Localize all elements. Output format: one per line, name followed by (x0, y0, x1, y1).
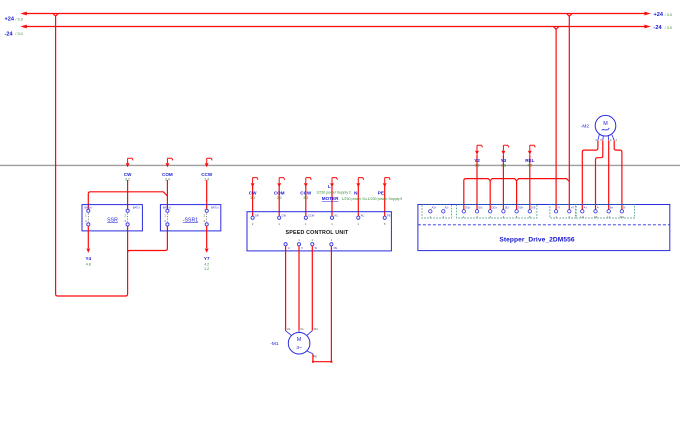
svg-text:AC: AC (334, 213, 338, 217)
speed unit motor terminal PE2 (330, 238, 338, 250)
svg-text:-24: -24 (5, 31, 14, 37)
svg-text:4.2: 4.2 (204, 262, 209, 266)
SSR1 contact dashes (167, 213, 206, 222)
off-page connector REL (525, 145, 535, 167)
relay SSR1 box (160, 205, 220, 231)
svg-text:W1: W1 (314, 327, 319, 331)
svg-text:CW: CW (124, 172, 132, 177)
off-page connector Y7 (204, 249, 210, 272)
svg-text:1/230 power Supply.2: 1/230 power Supply.2 (316, 190, 351, 194)
SSR pin numbers (85, 214, 126, 223)
svg-text:U: U (288, 246, 290, 250)
wire SSR1 pin4 to Y7 (206, 226, 208, 248)
svg-text:3.6: 3.6 (475, 163, 480, 167)
svg-text:A+: A+ (584, 206, 588, 210)
svg-text:1/230 power Su.1/230 power Sup: 1/230 power Su.1/230 power Supply.9 (342, 197, 403, 201)
speed unit terminal CW (278, 213, 287, 226)
speed unit terminal AC1 (330, 213, 338, 226)
M2 stub pin1 (612, 135, 617, 142)
svg-text:V1: V1 (300, 327, 304, 331)
svg-text:CCW: CCW (300, 190, 312, 195)
svg-text:Y3: Y3 (501, 158, 507, 163)
speed unit terminal SR (251, 213, 259, 226)
off-page connector CW (left) (124, 158, 133, 181)
terminal group box 2 (457, 204, 537, 218)
svg-text:BAT(+): BAT(+) (163, 205, 171, 209)
terminal DI3+ (515, 206, 524, 219)
speed unit motor terminal W (311, 238, 318, 250)
SSR pin 3 (right top) (126, 209, 129, 212)
svg-text:-V: -V (557, 206, 560, 210)
speed unit motor terminal V (297, 238, 303, 250)
wire +24 branch bus to DI+ terminals (464, 179, 570, 210)
svg-text:Y7: Y7 (204, 256, 210, 261)
svg-text:CW: CW (282, 213, 287, 217)
speed unit terminal PE (383, 213, 391, 226)
svg-text:COM: COM (274, 190, 285, 195)
svg-text:BAT(-): BAT(-) (211, 205, 219, 209)
svg-text:B+: B+ (610, 206, 614, 210)
svg-text:U1: U1 (287, 327, 291, 331)
svg-text:3.8: 3.8 (501, 163, 506, 167)
speed unit terminal CCW (304, 213, 315, 226)
off-page connector Y4 (85, 249, 91, 267)
arrow +24 left (20, 12, 26, 16)
off-page connector PE (middle) (378, 178, 390, 196)
svg-text:DI1+: DI1+ (465, 206, 471, 210)
terminal -V (554, 206, 560, 219)
terminal DI1+ (462, 206, 471, 219)
wire from -24 down to stepper drive -V terminal (553, 27, 559, 210)
wire V to motor M1 (298, 246, 300, 331)
SSR contact dashes (88, 213, 127, 222)
wire M2 pin4 to A+ (582, 141, 598, 210)
M1 stub W1 (307, 327, 319, 336)
svg-text:COM: COM (162, 172, 173, 177)
wire REL to DI3- (529, 155, 531, 210)
svg-text:DI3+: DI3+ (518, 206, 524, 210)
svg-text:W1: W1 (620, 215, 625, 219)
svg-text:AC: AC (361, 213, 365, 217)
wire link SSR pin4 to SSR1 pin3 (128, 226, 168, 253)
SSR1 pin 2 (left bottom) (166, 223, 169, 226)
arrow -24 right (644, 25, 650, 29)
wire drop to DI3+ (516, 181, 518, 210)
svg-text:+24: +24 (5, 17, 15, 23)
off-page connector COM (left) (162, 158, 173, 181)
off-page connector CW (middle) (249, 178, 258, 200)
wire CW to speed unit (252, 186, 254, 216)
off-page connector L (middle) (316, 178, 351, 195)
terminal DI2+ (489, 206, 498, 219)
terminal A2+ (429, 206, 437, 219)
arrow -24 left (20, 25, 26, 29)
M2 stub pin3 (600, 136, 603, 142)
svg-text:SSR: SSR (107, 217, 118, 223)
svg-text:PE: PE (313, 354, 317, 358)
wire PE to motor M1 (313, 246, 332, 362)
wire CCW to SSR1 pin2 (206, 180, 208, 209)
svg-text:/ 3.0: / 3.0 (15, 32, 22, 36)
svg-text:DI3-: DI3- (531, 206, 536, 210)
svg-text:3.3: 3.3 (303, 196, 308, 200)
terminal B+ (607, 206, 614, 219)
wire Y3 to DI2- (502, 155, 504, 210)
off-page connector N (middle) (354, 178, 364, 196)
off-page connector CCW (left) (201, 158, 213, 181)
SSR pin 2 (left bottom) (87, 223, 90, 226)
wire +24 bus (23, 13, 645, 15)
svg-text:SPEED CONTROL UNIT: SPEED CONTROL UNIT (286, 230, 350, 236)
wire CCW to speed unit (305, 186, 307, 216)
svg-text:B-: B- (623, 206, 626, 210)
terminal A+ (581, 206, 588, 219)
svg-text:L: L (328, 184, 331, 189)
wire W to motor M1 (311, 246, 313, 331)
svg-text:BAT(-): BAT(-) (133, 205, 141, 209)
svg-text:A2-: A2- (445, 206, 449, 210)
off-page connector CCW (middle) (300, 178, 312, 200)
SSR1 pin 1 (left top) (166, 209, 169, 212)
svg-text:SR: SR (255, 213, 259, 217)
wire N to speed unit (357, 186, 359, 216)
wire Y2 to DI1- (476, 155, 478, 210)
terminal group box 1 (422, 204, 452, 218)
motor M2 (595, 115, 616, 136)
svg-text:MOTER: MOTER (322, 196, 339, 201)
terminal B- (620, 206, 626, 219)
terminal +V (568, 206, 575, 219)
svg-text:-24: -24 (654, 25, 663, 31)
terminal DI3- (528, 206, 536, 219)
terminal DI2- (502, 206, 510, 219)
M1 stub PE (307, 351, 317, 359)
terminal A- (594, 206, 600, 219)
wire from +24 down left side to SSR bottom node (53, 14, 128, 297)
svg-text:1.2: 1.2 (204, 267, 209, 271)
SSR1 pin 3 (right top) (205, 209, 208, 212)
svg-text:Stepper_Drive_2DM556: Stepper_Drive_2DM556 (499, 236, 575, 243)
off-page connector Y2 (474, 145, 482, 167)
svg-text:3.2: 3.2 (277, 196, 282, 200)
wire -24 bus (23, 26, 645, 28)
svg-text:U2: U2 (594, 215, 598, 219)
relay SSR box (82, 205, 142, 231)
M2 stub pin4 (595, 135, 599, 143)
svg-text:-M1: -M1 (270, 341, 279, 347)
SSR1 pin 4 (right bottom) (205, 223, 208, 226)
wire COM to speed unit (278, 186, 280, 216)
SSR pin 4 (right bottom) (126, 223, 129, 226)
wire M2 pin3 to A- (596, 141, 603, 210)
M1 stub V1 (299, 327, 304, 333)
SSR pin 1 (left top) (87, 209, 90, 212)
svg-text:CW: CW (249, 190, 257, 195)
wire drop to DI2+ (489, 181, 491, 210)
wire M2 pin2 to B+ (608, 141, 610, 210)
off-page connector COM (middle) (274, 178, 285, 200)
svg-text:Y2: Y2 (474, 158, 480, 163)
terminal DI1- (475, 206, 483, 219)
wire SSR pin2 to Y4 (87, 226, 89, 248)
svg-text:PE: PE (387, 213, 391, 217)
SSR1 pin numbers (164, 214, 205, 223)
terminal A2- (442, 206, 449, 219)
svg-text:/ 3.0: / 3.0 (665, 13, 672, 17)
svg-text:A-: A- (597, 206, 600, 210)
off-page connector Y3 (501, 145, 509, 167)
wire PE to speed unit (384, 186, 386, 216)
speed unit motor terminal U (284, 243, 290, 250)
wire SSR pin2 branch to COM net (88, 192, 167, 210)
motor M1 (288, 332, 310, 354)
M1 stub U1 (286, 327, 292, 336)
wire M2 pin1 to B- (614, 141, 622, 210)
svg-text:/ 3.9: / 3.9 (15, 17, 22, 21)
svg-text:U1: U1 (581, 215, 585, 219)
wire CW to SSR pin1 (127, 180, 129, 209)
svg-text:-SSR1: -SSR1 (183, 217, 198, 223)
svg-text:3.1: 3.1 (250, 196, 255, 200)
M2 stub pin2 (608, 136, 612, 142)
speed unit terminal AC2 (357, 213, 365, 226)
speed control unit box (247, 212, 391, 251)
svg-text:CCW: CCW (201, 172, 213, 177)
svg-text:DI2-: DI2- (505, 206, 510, 210)
wire COM to SSR1 pin1 (166, 180, 168, 209)
wire from +24 down to stepper drive +V terminal (567, 14, 573, 210)
svg-text:4.2: 4.2 (527, 163, 532, 167)
svg-text:REL: REL (525, 158, 534, 163)
svg-text:DI2+: DI2+ (492, 206, 498, 210)
svg-text:CCW: CCW (308, 213, 315, 217)
svg-text:BAT(+): BAT(+) (84, 205, 92, 209)
svg-text:L1: L1 (607, 215, 611, 219)
svg-text:-M2: -M2 (581, 123, 590, 129)
terminal group box 4 (576, 204, 635, 218)
terminal group box 3 (550, 204, 576, 218)
svg-text:3~: 3~ (296, 345, 302, 351)
svg-text:M: M (297, 337, 301, 343)
arrow +24 right (644, 12, 650, 16)
svg-text:Y4: Y4 (85, 256, 91, 261)
svg-text:+V: +V (571, 206, 575, 210)
svg-text:V: V (301, 246, 303, 250)
svg-text:DI1-: DI1- (478, 206, 483, 210)
svg-text:M: M (603, 121, 608, 127)
gray separator line (0, 164, 680, 166)
svg-text:PE: PE (334, 246, 338, 250)
svg-text:A2+: A2+ (432, 206, 437, 210)
svg-text:/ 3.0: / 3.0 (665, 26, 672, 30)
svg-text:4.8: 4.8 (86, 262, 91, 266)
wire L to speed unit (331, 186, 333, 216)
svg-text:PE: PE (378, 190, 384, 195)
wire U to motor M1 (285, 246, 287, 331)
stepper drive box (418, 205, 670, 251)
svg-text:+24: +24 (654, 12, 664, 18)
